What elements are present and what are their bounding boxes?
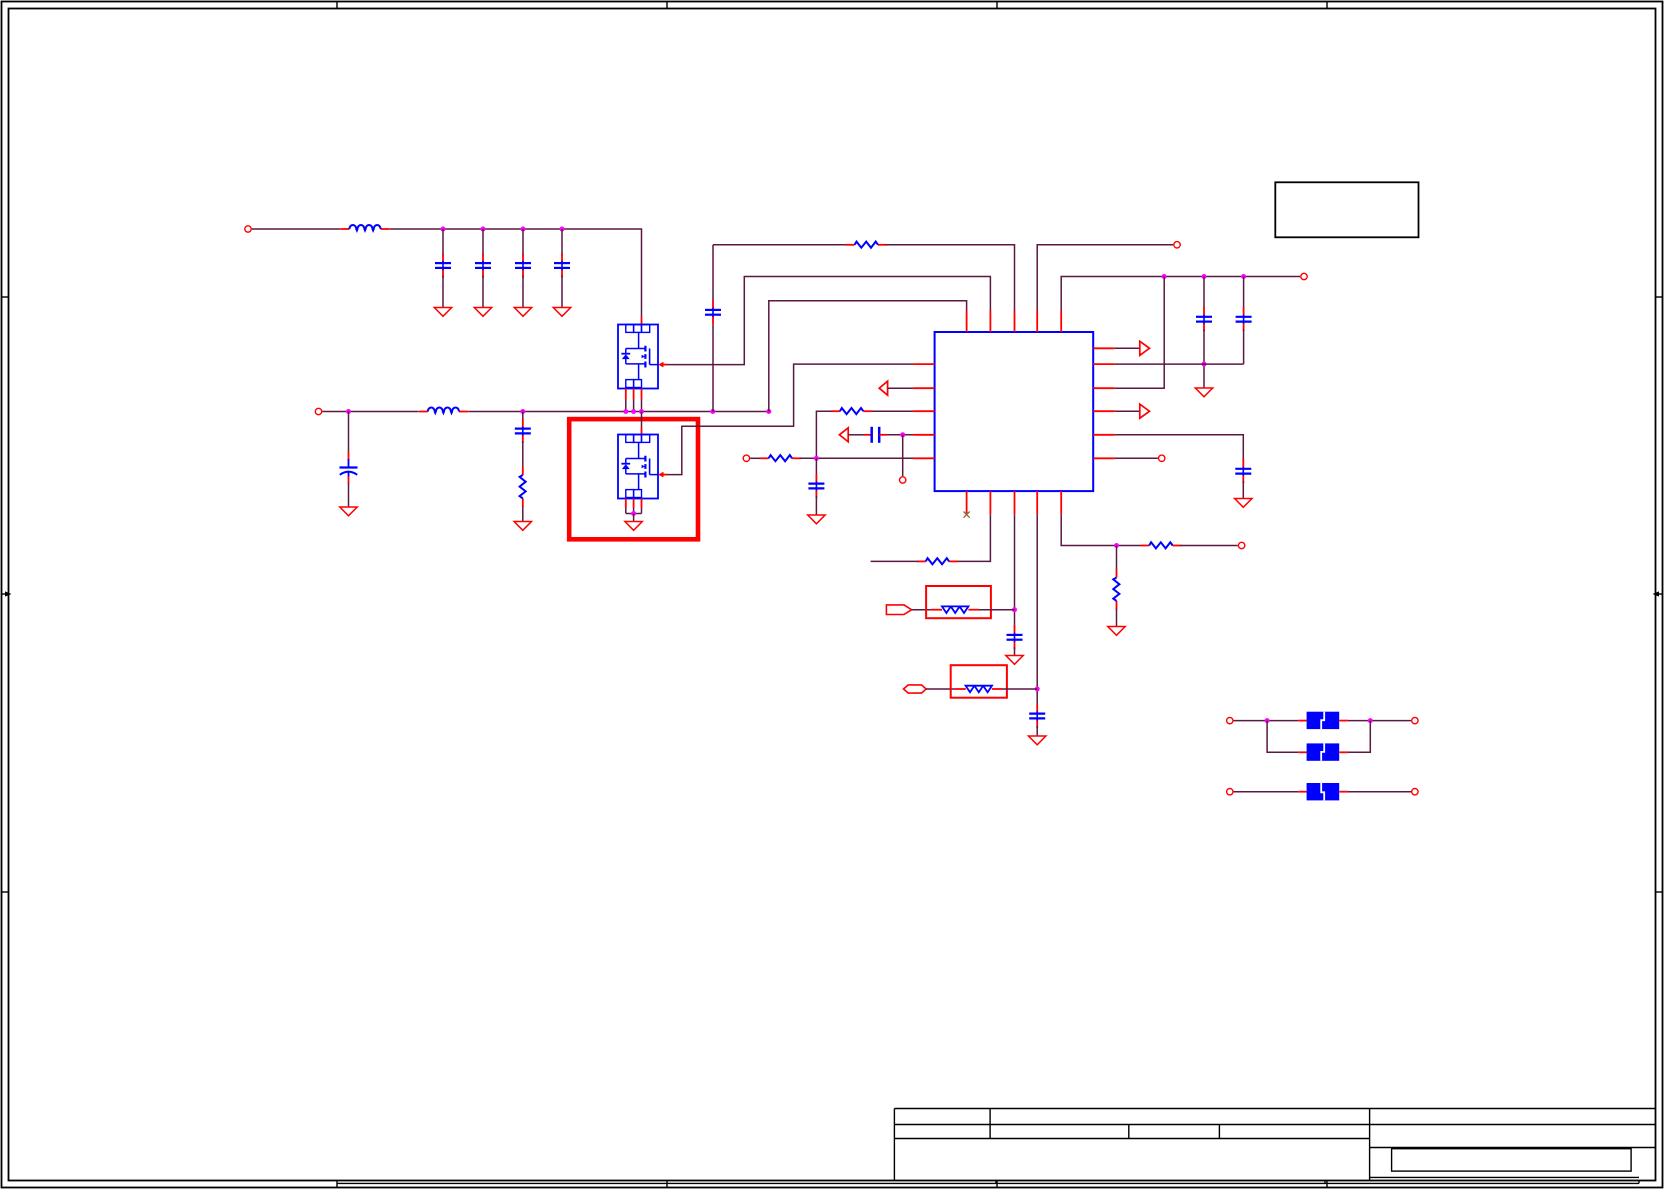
resistor R_C (760, 455, 801, 461)
wire U1 to C_D (1115, 435, 1244, 461)
border zone tick right 2 (1656, 891, 1663, 893)
wire C2 down (482, 276, 484, 308)
wire VCC rail right (1061, 277, 1300, 311)
wire to out arrow 1 (1115, 347, 1140, 349)
no-connect X on U1 pin (964, 512, 970, 518)
wire CB upper (1203, 277, 1205, 310)
border zone tick top 4 (1326, 2, 1328, 9)
jumper W2 element (955, 686, 1003, 693)
wire U1 to terminal top (1037, 245, 1173, 311)
wire stub drain Q1 (641, 317, 643, 325)
jumper W1 highlight box (926, 586, 991, 618)
wire C_F lower (815, 496, 817, 515)
node bus-Q1s1 (623, 409, 628, 414)
wire Q2 gate run (667, 364, 913, 475)
wire C_J2 down (1036, 726, 1038, 736)
terminal J_T9 (1412, 717, 1418, 723)
wire T10 to F3 (1234, 791, 1299, 793)
wire CG down (348, 483, 350, 507)
fuse F2 (1298, 743, 1348, 760)
node VIN1-C2 (481, 227, 486, 232)
ground C2 (474, 308, 491, 317)
port arrow in 2 (left) (839, 428, 848, 442)
wire R_A to U1 (886, 245, 1015, 311)
ground R_F (1108, 627, 1125, 636)
node rail-CB (1202, 274, 1207, 279)
wire CH up (522, 412, 524, 422)
wire W2 to J2 node (1003, 688, 1038, 690)
op-amp U1 (controller IC body) (935, 332, 1094, 491)
ground C3 (514, 308, 531, 317)
U1 right pin stubs (1093, 348, 1115, 458)
terminal J_T10 (1227, 789, 1233, 795)
wire VIN1 rail (390, 229, 642, 317)
wire F2 branch left (1267, 721, 1298, 753)
wire node down to terminal (902, 435, 904, 476)
node bus end riser (766, 409, 771, 414)
terminal J_T4 (1159, 455, 1165, 461)
ground RG (514, 522, 531, 531)
title block (337, 1109, 1656, 1184)
border zone tick top 1 (336, 2, 338, 9)
wire C1 up (442, 229, 444, 256)
wire input2 to L2 (322, 411, 418, 413)
wire C_J1 down (1014, 647, 1016, 655)
node Q2 source (631, 511, 636, 516)
node CB-row (1202, 362, 1207, 367)
ground C_F (808, 515, 825, 524)
wire T6 to R_C (750, 457, 761, 459)
wire Q2 source stub 3 (641, 499, 643, 514)
node bus-CG (346, 409, 351, 414)
ground C_D (1235, 499, 1252, 508)
wire W1 to J1 node (979, 609, 1015, 611)
node VIN1-C3 (521, 227, 526, 232)
wire CG up (348, 412, 350, 453)
capacitor C_B (1196, 307, 1212, 331)
wire P2 to jumper W2 (926, 688, 954, 690)
capacitor C2 (475, 254, 491, 278)
capacitor C_E (series, horizontal) (864, 427, 887, 443)
inductor L2 (419, 408, 468, 413)
ground CG (340, 507, 357, 516)
terminal J_T8 (1227, 717, 1233, 723)
wire arrow1 to U1 (888, 387, 914, 389)
wire R_F upper (1116, 546, 1118, 570)
wire Q2 source tie bar (626, 513, 642, 515)
wire Q1 source stub 3 (641, 389, 643, 412)
U1 bottom pin stubs (967, 491, 1062, 514)
terminal J_T5 (900, 477, 906, 483)
wire arrow2 to C_E (848, 434, 864, 436)
wire Q2 drain riser (641, 412, 643, 435)
capacitor CH (515, 419, 531, 443)
wire bus riser to IC (769, 301, 967, 412)
resistor R_B (831, 408, 872, 414)
wire P1 to jumper W1 (912, 609, 931, 611)
port arrow in 1 (left) (879, 381, 887, 395)
ground C4 (553, 308, 570, 317)
port arrow out 1 (1140, 341, 1150, 355)
node bus-CH (520, 409, 525, 414)
wire Q1 source stub 1 (625, 389, 627, 412)
jumper W2 highlight box (951, 665, 1007, 698)
ground C_J2 (1029, 736, 1046, 745)
jumper W1 element (931, 606, 979, 613)
wire to out arrow 2 (1115, 410, 1140, 412)
U1 top pin stubs (967, 311, 1062, 333)
wire T8 to F1 (1234, 720, 1299, 722)
wire C_A riser lower (712, 324, 714, 411)
capacitor C_J1 (1007, 625, 1023, 649)
capacitor CG polarized (340, 452, 358, 484)
wire Q1 source stub 2 (633, 389, 635, 412)
node VIN1-C4 (560, 227, 565, 232)
terminal J_T6 (743, 455, 749, 461)
wire U1 pin to J2 node (1036, 514, 1038, 706)
wire C2 up (482, 229, 484, 256)
wire R_C to U1 (800, 457, 913, 459)
fuse F3 (1298, 783, 1348, 800)
border zone tick top 3 (996, 2, 998, 9)
node rail-CC (1241, 274, 1246, 279)
node J1 (1012, 607, 1017, 612)
wire U1 pin to R_E row (1061, 514, 1141, 545)
wire C_A riser upper (712, 245, 714, 301)
port tag P2 (904, 685, 927, 693)
wire Q2 source to ground (633, 514, 635, 522)
wire Q2 source stub 2 (633, 499, 635, 514)
wire Q2 source stub 1 (625, 499, 627, 514)
node R_E / R_F (1114, 543, 1119, 548)
note box (1275, 182, 1418, 237)
resistor R_F (1113, 569, 1119, 610)
border zone tick bottom 4 (1326, 1181, 1328, 1188)
wire CC lower (1243, 329, 1245, 364)
capacitor C3 (515, 254, 531, 278)
wire C1 down (442, 276, 444, 308)
border center arrow right (1653, 591, 1663, 596)
resistor R_A (846, 242, 887, 248)
terminal J_IN1 (245, 226, 251, 232)
resistor R_D (917, 558, 958, 564)
resistor R_E (1141, 542, 1182, 548)
transistor Q1 (high-side MOSFET package) (618, 325, 667, 389)
wire U1 pin to rail riser (1115, 277, 1165, 389)
capacitor C_J2 (1029, 704, 1045, 728)
border zone tick bottom 3 (996, 1181, 998, 1188)
wire R_F lower (1116, 609, 1118, 627)
border zone tick left 2 (2, 891, 9, 893)
ground Q2 (625, 522, 642, 531)
terminal J_IN2 (315, 408, 321, 414)
wire RG down (522, 506, 524, 521)
ground C1 (434, 308, 451, 317)
wire U1 pin to R_D row (957, 514, 991, 561)
node J2 (1035, 687, 1040, 692)
port tag P1 (886, 605, 911, 615)
wire F2 branch right (1348, 721, 1370, 753)
wire CC upper (1243, 277, 1245, 310)
highlight box around Q2 (569, 419, 698, 539)
wire C_D down (1242, 481, 1244, 498)
transistor Q2 (low-side MOSFET package) (618, 435, 667, 499)
border zone tick bottom 2 (666, 1181, 668, 1188)
wire F1 to T9 (1348, 720, 1411, 722)
node VIN1-C1 (441, 227, 446, 232)
terminal J_T11 (1412, 789, 1418, 795)
resistor RG (520, 466, 526, 507)
wire CH to RG (522, 441, 524, 467)
wire C3 up (522, 229, 524, 256)
wire U1 pin row to CC (1115, 363, 1244, 365)
wire C4 up (561, 229, 563, 256)
wire C_F upper (815, 458, 817, 476)
wire R_E to terminal (1180, 545, 1237, 547)
capacitor C_C (1236, 307, 1252, 331)
node bus-Q1s3 (639, 409, 644, 414)
wire VIN2 bus (468, 411, 769, 413)
border zone tick bottom 1 (336, 1181, 338, 1188)
ground C_J1 (1006, 656, 1023, 665)
border zone tick top 2 (666, 2, 668, 9)
port arrow out 2 (1140, 404, 1150, 418)
terminal J_T2 (1174, 242, 1180, 248)
border zone tick right 1 (1656, 296, 1663, 298)
inductor L1 (340, 225, 389, 230)
wire U1 to terminal right (1115, 457, 1158, 459)
wire R_B corner to RC node (816, 411, 831, 458)
capacitor C_F (808, 474, 824, 498)
capacitor C_D (1235, 459, 1251, 483)
node C_E row (900, 432, 905, 437)
node F1 right (1368, 718, 1373, 723)
node rail-1164 (1162, 274, 1167, 279)
node F1 left (1265, 718, 1270, 723)
capacitor C_A (705, 300, 721, 324)
fuse F1 (1298, 712, 1348, 729)
wire CB lower (1203, 329, 1205, 388)
node bus-C_A riser (710, 409, 715, 414)
wire F3 to T11 (1348, 791, 1411, 793)
node bus-Q1s2 (631, 409, 636, 414)
wire input1 to L1 (252, 228, 340, 230)
wire R_D tail (871, 560, 918, 562)
wire U1 pin to J1 node (1014, 514, 1016, 627)
wire C_E to U1 (887, 434, 913, 436)
wire top feedback run (713, 244, 847, 246)
wire C3 down (522, 276, 524, 308)
terminal J_T7 (1238, 542, 1244, 548)
border center arrow left (2, 591, 12, 596)
terminal J_T3 (1301, 273, 1307, 279)
U1 left pin stubs (913, 364, 935, 458)
ground C_B (1195, 388, 1212, 397)
wire C4 down (561, 276, 563, 308)
wire Q1 gate run (667, 277, 990, 365)
capacitor C1 (435, 254, 451, 278)
node RC input (814, 456, 819, 461)
border zone tick left 1 (2, 296, 9, 298)
capacitor C4 (554, 254, 570, 278)
wire R_B to U1 (872, 410, 914, 412)
